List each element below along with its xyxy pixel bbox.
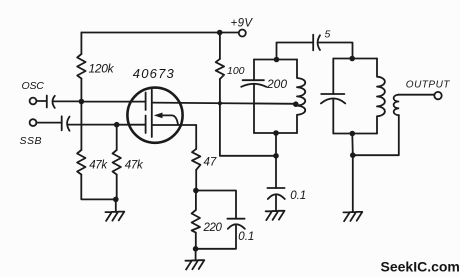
resistor 47 xyxy=(192,149,200,170)
node drain / 100 crossing xyxy=(218,101,222,105)
wire tank 1 cap branch lower xyxy=(253,84,255,133)
node tank 1 coil tap xyxy=(293,101,299,107)
wire source to resistor 47 xyxy=(195,125,197,149)
40673 gate bars xyxy=(145,93,147,134)
svg-text:OSC: OSC xyxy=(22,80,45,92)
node OSC / 120k / 47k xyxy=(79,99,85,105)
node 47k ground junction xyxy=(113,197,119,203)
wire cap to SSB node xyxy=(68,124,117,126)
svg-text:47: 47 xyxy=(204,157,217,169)
capacitor SSB coupling xyxy=(62,116,70,130)
svg-text:40673: 40673 xyxy=(133,66,175,81)
wire 120k to OSC node xyxy=(80,79,82,102)
wire +9V supply rail xyxy=(81,32,238,34)
svg-text:100: 100 xyxy=(227,65,245,77)
wire tank 1 top xyxy=(254,59,297,61)
wire link coil to output terminal xyxy=(398,94,434,96)
capacitor 200 (tank 1) xyxy=(241,80,266,87)
wire 220 to bottom node xyxy=(195,233,197,249)
wire node to ground xyxy=(195,249,197,260)
wire tank 1 bottom xyxy=(254,132,297,134)
wire bypass node to cap 0.1 xyxy=(275,156,277,188)
wire cap to OSC node xyxy=(54,100,82,102)
node rail junction to 100 ohm resistor xyxy=(217,30,223,36)
wire tank 2 cap branch lower xyxy=(332,100,334,134)
resistor 120k xyxy=(77,54,85,79)
wire 100 down to bypass node level xyxy=(219,79,221,156)
svg-text:+9V: +9V xyxy=(231,17,254,29)
node SSB / 47k xyxy=(114,122,120,128)
inductor tank 2 coil xyxy=(377,59,385,134)
wire tank 1 cap branch upper xyxy=(253,60,255,81)
ground (source network) xyxy=(185,260,204,269)
wire tank 1 bottom to bypass node xyxy=(275,133,277,156)
wire OSC node to gate 2 of U1 xyxy=(81,101,145,103)
ground (output tank) xyxy=(343,212,362,221)
wire node to resistor 220 xyxy=(195,191,197,211)
node tank 2 ground junction xyxy=(350,152,356,158)
resistor 47k (second) xyxy=(113,150,121,175)
wire bypass node horizontal xyxy=(220,155,276,157)
node tank 1 bottom xyxy=(273,130,279,136)
svg-text:220: 220 xyxy=(203,222,223,234)
wire drain to tank 1 coil tap xyxy=(152,103,296,104)
node tank 2 top xyxy=(349,56,355,62)
svg-text:200: 200 xyxy=(266,77,287,91)
svg-text:OUTPUT: OUTPUT xyxy=(406,79,451,90)
wire tank 2 top xyxy=(333,58,377,60)
wire 47k to ground node xyxy=(81,175,113,200)
node 220 / 0.1 ground junction xyxy=(193,246,199,252)
wire rail to resistor 120k xyxy=(80,33,82,55)
wire cap 5 to tank 2 top xyxy=(319,43,353,59)
wire cap 0.1 down and to bottom node xyxy=(196,226,236,249)
capacitor tank 2 xyxy=(321,94,345,103)
inductor tank 1 coil xyxy=(297,60,305,134)
wire tank 2 cap branch upper xyxy=(332,59,334,95)
ground (tank 1 bypass) xyxy=(266,211,285,220)
capacitor 0.1 (bypass tank 1) xyxy=(267,188,284,199)
terminal +9V xyxy=(239,30,246,37)
wire node to cap 0.1 branch xyxy=(196,191,236,219)
wire tank 2 bottom xyxy=(333,133,377,135)
resistor 100 xyxy=(216,59,224,79)
wire cap 0.1 to ground xyxy=(275,196,277,211)
wire OSC terminal to coupling cap xyxy=(37,100,47,102)
wire node to ground xyxy=(115,199,117,211)
wire SSB node to gate 1 of U1 xyxy=(117,124,146,126)
inductor output link coil xyxy=(394,95,399,116)
transistor U1 40673 body xyxy=(127,88,182,143)
wire SSB terminal to coupling cap xyxy=(37,122,62,124)
svg-text:0.1: 0.1 xyxy=(238,231,254,243)
svg-text:5: 5 xyxy=(325,29,331,41)
terminal OSC xyxy=(30,98,37,105)
wire OSC node down to 47k xyxy=(80,102,82,151)
wire rail to resistor 100 xyxy=(219,33,221,59)
node tank 1 top xyxy=(274,57,280,63)
node tank 2 bottom xyxy=(350,131,356,137)
terminal SSB xyxy=(30,119,37,126)
capacitor OSC coupling xyxy=(47,96,55,108)
wire tank 2 bottom to ground node xyxy=(351,134,354,156)
ground (input bias divider) xyxy=(105,212,124,221)
wire ground node down xyxy=(352,155,354,211)
40673 substrate arrow xyxy=(161,115,178,124)
svg-text:120k: 120k xyxy=(89,62,115,76)
wire SSB node down to second 47k xyxy=(116,125,118,150)
terminal OUTPUT xyxy=(434,92,441,99)
wire link coil to ground node xyxy=(353,115,399,155)
capacitor 5 coupling xyxy=(313,35,320,51)
svg-text:SeekIC.com: SeekIC.com xyxy=(381,259,460,275)
wire 47 to node xyxy=(195,170,197,191)
wire source lead xyxy=(152,124,196,126)
resistor 47k (first) xyxy=(77,150,85,175)
resistor 220 xyxy=(192,210,200,233)
svg-text:47k: 47k xyxy=(89,160,108,172)
wire second 47k to ground node xyxy=(116,175,118,200)
svg-text:0.1: 0.1 xyxy=(290,190,306,202)
svg-text:47k: 47k xyxy=(125,160,144,172)
capacitor 0.1 (source bypass) xyxy=(227,219,244,229)
wire tank 1 top to coupling cap 5 xyxy=(277,43,313,60)
40673 channel xyxy=(151,90,153,137)
node bypass junction xyxy=(273,153,279,159)
node source bypass junction xyxy=(193,188,199,194)
svg-text:SSB: SSB xyxy=(20,135,43,147)
